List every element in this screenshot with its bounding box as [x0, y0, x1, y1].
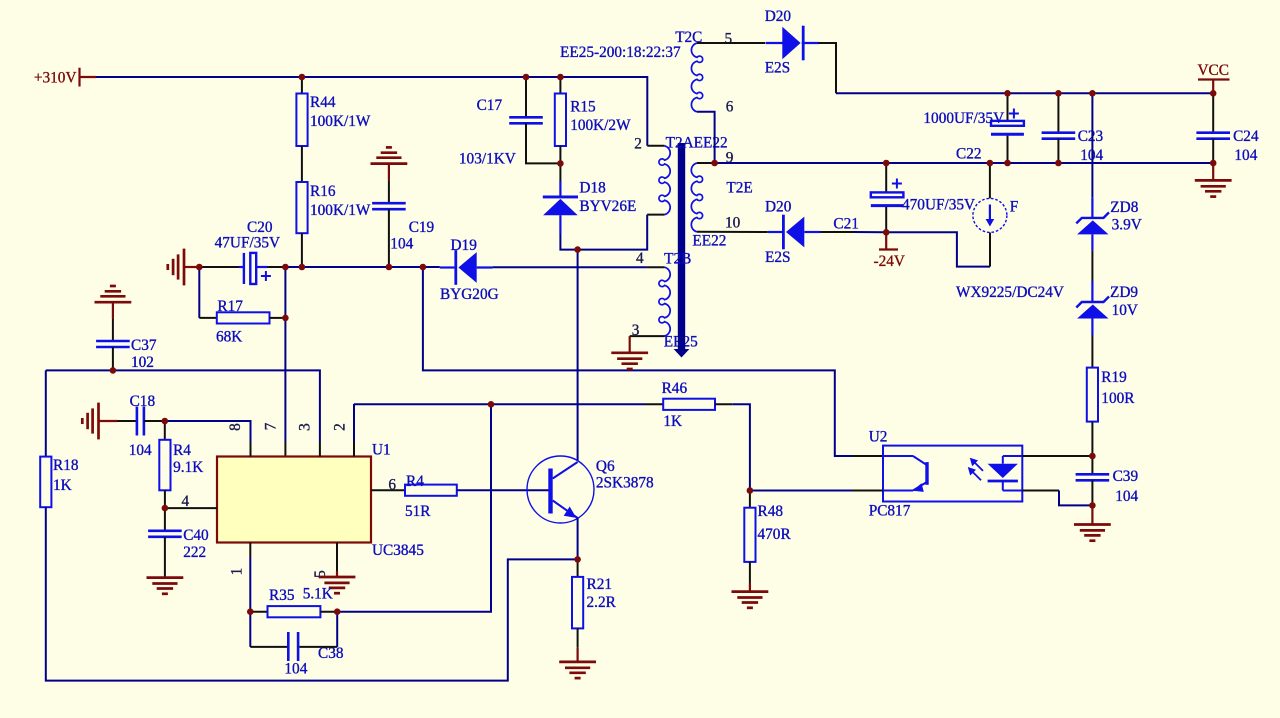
junction ZD8 top: [1089, 90, 1096, 97]
svg-text:R35: R35: [269, 587, 295, 604]
junction C24 top: [1210, 160, 1217, 167]
wire Q6 source down: [577, 518, 579, 559]
svg-text:104: 104: [1115, 488, 1138, 505]
diode D18 BYV26E: [543, 196, 578, 216]
svg-text:C22: C22: [956, 146, 982, 163]
capacitor C21 470UF (polarized): [871, 192, 904, 205]
svg-text:EE22: EE22: [692, 233, 726, 250]
svg-text:R19: R19: [1101, 369, 1127, 386]
IC U1 UC3845 body: [217, 457, 371, 543]
wire C20-node: [268, 266, 286, 268]
junction pin9: [711, 160, 718, 167]
resistor R46: [663, 399, 715, 410]
power port +310V: [80, 68, 97, 87]
wire D20 cathode stub: [802, 42, 819, 44]
wire R46 to R48 node: [732, 404, 750, 490]
svg-text:ZD8: ZD8: [1110, 199, 1138, 216]
wire C20 left stub: [239, 266, 244, 268]
junction 1000UF top: [1004, 90, 1011, 97]
wire opto to corner: [1022, 490, 1059, 492]
svg-text:D18: D18: [579, 180, 606, 197]
svg-text:U2: U2: [869, 429, 888, 446]
wire 1000UF bottom pin: [1007, 136, 1009, 163]
svg-text:103/1KV: 103/1KV: [459, 151, 516, 168]
svg-text:EE25-200:18:22:37: EE25-200:18:22:37: [560, 44, 681, 61]
svg-text:470UF/35V: 470UF/35V: [902, 197, 975, 214]
wire C18-node: [144, 420, 165, 422]
svg-text:D20: D20: [765, 8, 792, 25]
winding T2C: [691, 43, 702, 112]
junction R16 bottom: [299, 264, 306, 271]
wire node to pin8: [165, 421, 251, 442]
svg-text:C23: C23: [1078, 128, 1104, 145]
svg-text:C20: C20: [247, 219, 273, 236]
svg-text:100K/2W: 100K/2W: [570, 117, 631, 134]
wire R44 top pin: [301, 77, 303, 94]
wire gnd-C19: [388, 180, 390, 203]
wire D18 top: [559, 163, 561, 181]
wire C20 ground stub: [184, 266, 199, 268]
pin 7 of U1: [284, 442, 286, 457]
plus of C20: [261, 271, 271, 281]
wire T2E pin9 stub: [697, 162, 715, 164]
wire T2A pin2 stub: [647, 145, 664, 147]
svg-text:C18: C18: [130, 393, 156, 410]
svg-text:2.2R: 2.2R: [587, 594, 617, 611]
svg-text:1K: 1K: [53, 477, 72, 494]
wire T2A bottom stub: [647, 214, 664, 216]
wire C40 to ground: [164, 537, 166, 578]
svg-text:UC3845: UC3845: [372, 542, 424, 559]
resistor R16: [296, 182, 307, 233]
junction C37: [110, 367, 117, 374]
svg-text:3.9V: 3.9V: [1112, 217, 1142, 234]
junction opto branch: [420, 264, 427, 271]
ground at T2B pin3: [611, 353, 648, 369]
wire C23 bottom pin: [1057, 139, 1059, 163]
svg-text:R48: R48: [758, 503, 784, 520]
wire R46 right stub: [715, 403, 732, 405]
wire C24 top pin: [1212, 93, 1214, 132]
svg-text:1K: 1K: [663, 413, 682, 430]
wire ZD9 bottom stub: [1091, 319, 1093, 336]
wire D18 anode stub: [559, 181, 561, 196]
svg-text:F: F: [1010, 199, 1019, 216]
svg-text:222: 222: [183, 544, 206, 561]
junction C21 bottom: [883, 229, 890, 236]
wire opto pin stub: [852, 455, 883, 457]
wire C24 to ground: [1212, 163, 1214, 180]
resistor R18: [40, 457, 51, 508]
svg-text:VCC: VCC: [1198, 62, 1229, 79]
svg-text:C24: C24: [1233, 128, 1259, 145]
svg-text:8: 8: [227, 423, 244, 431]
wire R21 bottom pin: [577, 628, 579, 647]
zener ZD9 10V: [1076, 297, 1109, 319]
svg-text:104: 104: [284, 661, 307, 678]
svg-text:9.1K: 9.1K: [173, 459, 203, 476]
svg-text:R4: R4: [173, 442, 191, 459]
junction R35 right: [334, 608, 341, 615]
junction Q6/R21: [574, 556, 581, 563]
svg-text:7: 7: [262, 422, 279, 430]
junction C20 right: [282, 264, 289, 271]
wire opto led- stub: [852, 490, 883, 492]
ground at U1 pin5: [319, 577, 356, 593]
opto LED: [988, 456, 1023, 491]
junction C20 left: [196, 264, 203, 271]
zener ZD8 3.9V: [1076, 212, 1109, 234]
wire R21 to ground: [576, 648, 578, 662]
svg-text:104: 104: [1234, 147, 1257, 164]
wire node-C40: [164, 508, 166, 531]
wire D20b right: [821, 231, 854, 233]
arrow inside F: [986, 205, 995, 227]
winding T2E: [691, 163, 702, 232]
wire R4 bottom pin: [164, 490, 166, 508]
junction VCC: [1210, 90, 1217, 97]
svg-text:4: 4: [636, 250, 644, 267]
svg-text:104: 104: [129, 442, 152, 459]
wire +310V rail: [96, 77, 647, 146]
wire ZD8 top stub: [1091, 197, 1093, 218]
wire C21 top pin: [885, 163, 887, 192]
wire C17 bottom: [526, 123, 560, 163]
wire R35 right stub: [320, 611, 337, 613]
junction R15 top: [557, 74, 564, 81]
svg-text:R16: R16: [310, 183, 336, 200]
svg-text:1: 1: [228, 568, 245, 576]
svg-text:5: 5: [725, 31, 733, 48]
wire C17 top pin: [525, 77, 527, 117]
wire C20 right stub: [256, 266, 267, 268]
junction C23 top: [1055, 90, 1062, 97]
wire C37 ground stub: [112, 302, 114, 319]
svg-text:R44: R44: [310, 94, 336, 111]
svg-text:BYG20G: BYG20G: [440, 286, 499, 303]
wire pin3 to ground: [629, 336, 631, 353]
svg-text:WX9225/DC24V: WX9225/DC24V: [956, 284, 1064, 301]
wire node-R4: [164, 421, 166, 440]
wire D18 to T2A pin: [560, 215, 647, 250]
transformer core EE25: [674, 143, 690, 358]
svg-text:BYV26E: BYV26E: [579, 198, 636, 215]
junction F top: [987, 160, 994, 167]
svg-text:3: 3: [296, 423, 313, 431]
wire C19 bottom pin: [388, 209, 390, 267]
junction C18/R4: [162, 418, 169, 425]
wire VCC to ZD8: [1091, 93, 1093, 197]
wire node-pin7 vertical: [284, 267, 286, 442]
capacitor C40: [148, 531, 182, 537]
wire T2C pin5 stub: [697, 42, 766, 44]
wire D19 cathode stub: [440, 266, 455, 268]
wire C19 ground stub: [388, 164, 390, 181]
diode D20 (top) E2S: [782, 26, 804, 61]
junction 1000UF bottom: [1004, 160, 1011, 167]
wire R35 to pin2 net: [337, 404, 491, 611]
resistor R19: [1087, 368, 1098, 422]
svg-text:6: 6: [388, 477, 396, 494]
wire C39 bottom pin: [1091, 480, 1093, 505]
wire C38 right vert: [336, 612, 338, 647]
wire 0V rail: [715, 162, 1214, 164]
resistor R48: [744, 508, 755, 562]
svg-text:2: 2: [634, 136, 642, 153]
wire D18 cathode stub: [559, 215, 561, 233]
wire C38 right stub: [299, 646, 337, 648]
junction R44 top: [299, 74, 306, 81]
resistor R35: [268, 606, 321, 617]
junction C23 bottom: [1055, 160, 1062, 167]
wire gnd-C18: [117, 420, 137, 422]
svg-text:T2AEE22: T2AEE22: [666, 134, 728, 151]
wire pin2 row a: [354, 403, 645, 405]
ground above C37: [95, 286, 132, 302]
plus of C21: [892, 179, 902, 189]
svg-text:D20: D20: [765, 199, 792, 216]
svg-text:2SK3878: 2SK3878: [596, 475, 654, 492]
wire R48 to ground: [749, 583, 751, 592]
wire F bottom pin: [989, 233, 991, 267]
svg-text:47UF/35V: 47UF/35V: [215, 235, 280, 252]
ground at C18: [82, 403, 98, 440]
ground at C20: [168, 249, 184, 286]
resistor R4 (51R): [405, 485, 457, 496]
wire to C21 node: [853, 231, 886, 233]
wire D19 anode stub: [477, 266, 493, 268]
svg-text:R17: R17: [217, 298, 243, 315]
wire C37 row to pin3: [46, 370, 320, 441]
capacitor C37: [96, 341, 130, 347]
opto phototransistor: [883, 456, 929, 492]
ground above C19: [371, 147, 408, 163]
capacitor C18: [137, 407, 144, 436]
wire R48 bottom pin: [749, 562, 751, 583]
svg-text:10V: 10V: [1112, 302, 1138, 319]
wire gnd-C20: [199, 266, 239, 268]
svg-text:U1: U1: [372, 442, 391, 459]
wire Q6 drain vertical: [577, 250, 579, 461]
resistor R17: [217, 312, 270, 323]
current source F: [973, 198, 1007, 232]
wire node-C39: [1091, 456, 1093, 474]
pin 5 of U1: [336, 543, 338, 572]
svg-text:C37: C37: [131, 337, 157, 354]
capacitor C24: [1196, 133, 1230, 139]
svg-text:T2E: T2E: [726, 179, 752, 196]
pin 8 of U1: [250, 442, 252, 457]
wire to R18: [45, 370, 47, 456]
svg-text:D19: D19: [451, 237, 478, 254]
svg-text:100R: 100R: [1101, 390, 1135, 407]
svg-text:T2B: T2B: [664, 251, 691, 268]
wire node-R21: [577, 559, 579, 577]
svg-text:104: 104: [390, 236, 413, 253]
wire pin1 down: [249, 557, 251, 612]
junction pin2/R35: [488, 401, 495, 408]
transistor Q6 2SK3878: [527, 456, 594, 523]
junction R46/R48/opto: [747, 487, 754, 494]
wire C38 left vert: [249, 612, 251, 647]
opto light arrows: [968, 458, 983, 481]
wire C24 bottom pin: [1212, 139, 1214, 163]
wire C21 to F: [886, 232, 990, 266]
capacitor C19: [372, 203, 406, 209]
wire C21 bottom pin: [885, 207, 887, 232]
svg-text:4: 4: [182, 493, 190, 510]
svg-text:C39: C39: [1113, 468, 1139, 485]
ground at C39: [1074, 525, 1111, 541]
capacitor 1000UF/35V (polarized): [991, 121, 1024, 134]
wire R15 top pin: [559, 77, 561, 94]
wire ZD9-R19: [1091, 335, 1093, 368]
wire T2E pin10 stub: [697, 231, 768, 233]
svg-text:R15: R15: [570, 99, 596, 116]
pin 1 of U1: [249, 543, 251, 558]
wire R16 bottom pin: [301, 233, 303, 267]
winding T2A: [659, 146, 670, 215]
ground at C24: [1195, 180, 1232, 196]
svg-text:68K: 68K: [216, 329, 242, 346]
ground at R48: [732, 592, 769, 608]
wire C23 top pin: [1057, 93, 1059, 132]
wire pin5 to ground: [336, 571, 338, 577]
power port VCC: [1198, 80, 1230, 94]
capacitor C23: [1042, 133, 1076, 139]
junction D18 row: [574, 246, 581, 253]
wire T2C pin6: [697, 112, 715, 163]
wire C38 left stub: [250, 646, 287, 648]
winding T2B: [659, 267, 670, 336]
wire D20b anode stub: [805, 231, 821, 233]
svg-text:+310V: +310V: [34, 70, 77, 87]
junction pin4: [162, 505, 169, 512]
wire R44-R16: [301, 146, 303, 182]
svg-text:1000UF/35V: 1000UF/35V: [923, 110, 1004, 127]
junction R19/C39/opto: [1089, 453, 1096, 460]
capacitor C20 (polarized): [244, 253, 256, 284]
pin 2 of U1: [353, 442, 355, 457]
svg-text:R21: R21: [587, 576, 613, 593]
junction R17 right: [282, 315, 289, 322]
svg-text:R18: R18: [53, 457, 79, 474]
wire R46 left stub: [645, 403, 663, 405]
svg-text:100K/1W: 100K/1W: [310, 113, 371, 130]
capacitor C17: [509, 117, 543, 123]
junction C39 bottom: [1089, 502, 1096, 509]
svg-text:-24V: -24V: [874, 253, 905, 270]
svg-text:C21: C21: [833, 216, 859, 233]
junction C21 top: [883, 160, 890, 167]
wire R17 right stub: [270, 317, 286, 319]
wire VCC rail: [836, 92, 1213, 94]
wire pin2 up: [353, 404, 355, 442]
wire R19 bottom pin: [1091, 422, 1093, 456]
svg-text:102: 102: [131, 354, 154, 371]
wire to R17: [199, 317, 217, 319]
svg-text:C17: C17: [477, 97, 503, 114]
svg-text:5.1K: 5.1K: [303, 586, 333, 603]
diode D19 BYG20G: [454, 250, 476, 285]
wire node-R48: [749, 491, 751, 508]
wire D20 anode stub: [766, 42, 783, 44]
junction C17 top: [523, 74, 530, 81]
pin 4 of U1: [165, 507, 217, 509]
diode D20 (bottom) E2S: [782, 215, 804, 250]
wire F top pin: [989, 163, 991, 198]
wire C18 ground stub: [99, 420, 118, 422]
wire R4 to Q6 base: [457, 489, 549, 491]
optocoupler U2 body: [883, 446, 1022, 502]
ground at C40: [147, 578, 184, 594]
svg-text:ZD9: ZD9: [1110, 284, 1138, 301]
resistor R44: [296, 94, 307, 147]
svg-text:R4: R4: [406, 473, 424, 490]
resistor R21: [572, 577, 583, 629]
svg-text:100K/1W: 100K/1W: [310, 202, 371, 219]
wire ZD8 bottom stub: [1091, 234, 1093, 250]
wire T2B top stub: [647, 266, 665, 268]
svg-text:Q6: Q6: [596, 458, 615, 475]
wire C37 bottom pin: [112, 347, 114, 370]
ground at R21: [559, 662, 596, 678]
svg-text:C40: C40: [183, 527, 209, 544]
wire D20 to VCC rail: [818, 43, 836, 93]
wire row267 b: [493, 266, 647, 268]
wire row267 a: [285, 266, 439, 268]
junction R15/C17/D18: [557, 160, 564, 167]
wire R35 left stub: [250, 611, 267, 613]
junction R35 left: [247, 608, 254, 615]
capacitor C39: [1076, 474, 1110, 480]
svg-text:C19: C19: [409, 219, 435, 236]
wire C39 to ground: [1091, 505, 1093, 524]
wire T2B pin3 stub: [630, 335, 665, 337]
wire R18 bottom loop: [46, 507, 578, 680]
plus of 1000UF: [1009, 109, 1019, 119]
wire D20b cathode stub: [768, 231, 782, 233]
wire gnd-C37: [112, 319, 114, 341]
resistor R4 (9.1K): [159, 440, 170, 491]
power port -24V: [879, 232, 898, 249]
wire opto collector to node: [1022, 455, 1092, 457]
pin 6 of U1: [371, 489, 405, 491]
wire C20 down: [198, 267, 200, 318]
pin 3 of U1: [319, 442, 321, 457]
svg-text:10: 10: [725, 214, 741, 231]
svg-text:470R: 470R: [758, 526, 792, 543]
svg-text:E2S: E2S: [765, 249, 791, 266]
wire row267 to opto: [423, 267, 852, 456]
svg-text:6: 6: [726, 99, 734, 116]
svg-text:R46: R46: [662, 380, 688, 397]
wire ZD9 top stub: [1091, 281, 1093, 302]
wire 1000UF top pin: [1007, 93, 1009, 121]
resistor R15: [555, 94, 566, 147]
svg-text:2: 2: [332, 423, 349, 431]
wire opto emitter to gnd node: [1059, 491, 1092, 506]
wire node to opto: [750, 490, 852, 492]
wire ZD8-ZD9: [1091, 251, 1093, 281]
svg-text:51R: 51R: [405, 503, 431, 520]
capacitor C38: [288, 632, 298, 661]
junction C19 bottom: [386, 264, 393, 271]
svg-text:PC817: PC817: [869, 503, 911, 520]
wire R15 bottom pin: [559, 146, 561, 163]
svg-text:E2S: E2S: [765, 60, 791, 77]
